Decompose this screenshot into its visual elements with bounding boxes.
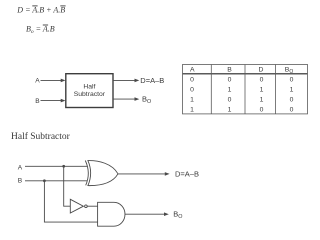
svg-text:1: 1 [260,96,264,103]
wire: A input arrow [41,79,63,81]
svg-text:0: 0 [290,106,294,113]
wire: AND output arrow to Bo [125,213,166,215]
svg-text:D = A.B + A.B: D = A.B + A.B [16,6,65,15]
svg-text:0: 0 [190,77,194,84]
not gate [70,199,83,213]
svg-text:B: B [18,178,23,185]
wire: NOT to AND [87,205,97,207]
svg-text:1: 1 [190,106,194,113]
svg-text:A: A [35,78,40,85]
svg-text:Bo = A.B: Bo = A.B [26,25,55,35]
wire: B to XOR [25,180,87,182]
svg-text:Half Subtractor: Half Subtractor [11,131,71,142]
half subtractor block [66,74,113,108]
svg-text:D=A–B: D=A–B [140,76,164,85]
svg-text:1: 1 [190,96,194,103]
wire: D output arrow [113,79,136,81]
svg-text:1: 1 [228,106,232,113]
svg-text:0: 0 [228,77,232,84]
svg-text:Half: Half [83,83,95,90]
svg-text:B: B [227,67,232,74]
svg-text:D: D [259,67,264,74]
svg-text:0: 0 [260,106,264,113]
svg-text:D=A–B: D=A–B [175,170,199,179]
svg-text:Subtractor: Subtractor [74,91,106,98]
table column D values [260,77,264,114]
node: junction on A [62,165,65,168]
svg-text:B: B [35,98,40,105]
table column A values [190,77,194,114]
svg-text:A: A [190,67,195,74]
svg-text:1: 1 [290,87,294,94]
svg-text:0: 0 [260,77,264,84]
wire: XOR output arrow to D [118,173,166,175]
xor gate [85,161,118,186]
wire: B input arrow [41,100,63,102]
table column B values [228,77,232,114]
node: junction on B [43,179,46,182]
equation Bo = A-bar.B [26,25,55,35]
svg-text:0: 0 [228,96,232,103]
wire: A junction down to NOT [64,166,71,206]
svg-text:1: 1 [260,87,264,94]
wire: A to XOR [25,165,87,167]
svg-text:1: 1 [228,87,232,94]
svg-text:0: 0 [290,96,294,103]
table column Bo values [290,77,294,114]
svg-text:0: 0 [290,77,294,84]
wire: Bo output arrow [113,98,136,100]
svg-text:A: A [18,164,23,171]
and gate [98,202,125,226]
truth table [183,65,308,114]
svg-text:0: 0 [190,87,194,94]
equation D = A-bar.B + A.B-bar [16,6,65,15]
wire: B junction down and to AND lower input [44,181,97,222]
